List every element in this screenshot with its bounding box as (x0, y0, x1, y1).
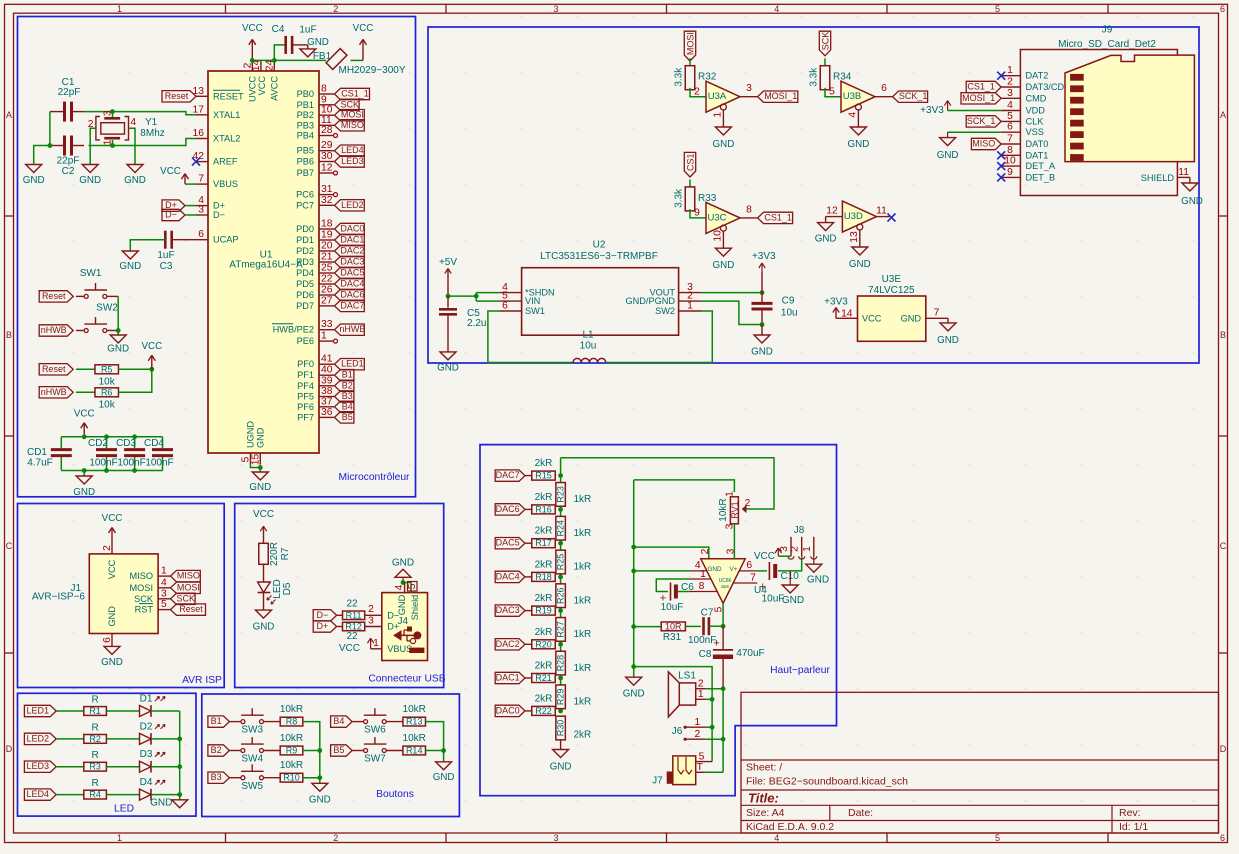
svg-text:5: 5 (161, 599, 167, 610)
svg-text:AVCC: AVCC (269, 76, 279, 101)
svg-text:12: 12 (826, 206, 838, 217)
svg-text:3: 3 (746, 83, 752, 94)
svg-text:GND: GND (713, 260, 735, 271)
svg-text:R8: R8 (286, 717, 298, 727)
svg-text:GND: GND (107, 344, 129, 355)
svg-text:7: 7 (1007, 134, 1013, 145)
svg-text:T: T (697, 762, 704, 773)
svg-text:GND: GND (255, 427, 265, 448)
svg-text:4.7uF: 4.7uF (27, 458, 53, 469)
svg-text:100nF: 100nF (89, 458, 117, 469)
svg-text:R27: R27 (556, 621, 566, 638)
svg-text:VSS: VSS (1026, 127, 1044, 137)
svg-text:R: R (91, 778, 98, 789)
svg-text:DAC4: DAC4 (496, 571, 520, 581)
svg-text:PC7: PC7 (296, 200, 314, 210)
svg-text:GND: GND (124, 175, 146, 186)
svg-text:VCC: VCC (754, 551, 775, 562)
svg-text:MISO: MISO (972, 139, 995, 149)
svg-text:D1: D1 (140, 694, 153, 705)
svg-text:R21: R21 (535, 673, 552, 683)
svg-text:3.3k: 3.3k (809, 67, 820, 87)
svg-text:R15: R15 (535, 471, 552, 481)
svg-text:C2: C2 (62, 166, 75, 177)
svg-text:C9: C9 (782, 296, 795, 307)
svg-text:Reset: Reset (42, 364, 66, 374)
svg-text:10k: 10k (99, 399, 116, 410)
svg-text:PF6: PF6 (297, 402, 314, 412)
svg-text:GND: GND (23, 175, 45, 186)
svg-text:4: 4 (161, 577, 167, 588)
svg-text:SCK: SCK (821, 32, 831, 51)
svg-text:10uF: 10uF (661, 602, 684, 613)
svg-text:1: 1 (725, 491, 736, 497)
svg-text:1: 1 (373, 638, 379, 649)
svg-text:DAC4: DAC4 (340, 279, 364, 289)
svg-text:VCC: VCC (160, 166, 181, 177)
svg-text:GND: GND (849, 259, 871, 270)
svg-text:1: 1 (695, 717, 701, 728)
svg-text:Haut−parleur: Haut−parleur (770, 665, 830, 676)
svg-text:2kR: 2kR (574, 730, 592, 741)
svg-text:XTAL2: XTAL2 (213, 134, 240, 144)
svg-text:PB7: PB7 (297, 168, 314, 178)
svg-text:A: A (1220, 110, 1226, 120)
svg-text:GND: GND (901, 314, 922, 324)
svg-text:Id: 1/1: Id: 1/1 (1119, 821, 1148, 833)
svg-text:6: 6 (502, 301, 508, 312)
svg-text:GND: GND (437, 363, 459, 374)
svg-text:CS1_1: CS1_1 (764, 212, 792, 222)
svg-text:1: 1 (103, 139, 114, 145)
svg-text:18: 18 (321, 219, 333, 230)
svg-text:6: 6 (102, 637, 113, 643)
svg-text:nHWB: nHWB (339, 324, 365, 334)
svg-text:33: 33 (321, 319, 333, 330)
svg-text:8: 8 (1007, 145, 1013, 156)
svg-text:DAC5: DAC5 (496, 538, 520, 548)
svg-text:R11: R11 (346, 610, 362, 620)
svg-text:20: 20 (321, 241, 333, 252)
svg-text:DAC6: DAC6 (340, 290, 364, 300)
svg-text:Reset: Reset (165, 91, 189, 101)
svg-text:LED: LED (114, 804, 134, 815)
svg-text:GND: GND (150, 798, 172, 809)
svg-text:2kR: 2kR (535, 492, 553, 503)
svg-text:U3C: U3C (707, 212, 726, 223)
svg-text:CMD: CMD (1026, 93, 1047, 103)
svg-text:R29: R29 (556, 689, 566, 706)
svg-text:B2: B2 (211, 745, 222, 755)
svg-text:DAC1: DAC1 (496, 673, 520, 683)
svg-text:R4: R4 (89, 790, 101, 800)
svg-text:CLK: CLK (1026, 116, 1045, 126)
svg-text:1kR: 1kR (574, 629, 592, 640)
svg-text:GND: GND (623, 689, 645, 700)
svg-text:CD1: CD1 (27, 447, 47, 458)
svg-text:GND: GND (101, 657, 123, 668)
svg-text:PB1: PB1 (297, 100, 314, 110)
svg-text:4: 4 (774, 4, 779, 14)
svg-text:PD3: PD3 (296, 257, 314, 267)
svg-text:GND: GND (307, 37, 329, 48)
svg-text:R13: R13 (406, 717, 423, 727)
svg-text:PB4: PB4 (297, 131, 314, 141)
svg-text:Boutons: Boutons (376, 789, 414, 800)
svg-text:2kR: 2kR (535, 661, 553, 672)
svg-text:PB6: PB6 (297, 157, 314, 167)
svg-text:1: 1 (687, 301, 693, 312)
svg-text:R2: R2 (89, 734, 101, 744)
svg-text:1: 1 (1007, 65, 1013, 76)
svg-text:DET_B: DET_B (1026, 172, 1056, 182)
svg-text:1kR: 1kR (574, 494, 592, 505)
svg-text:GND: GND (807, 575, 829, 586)
svg-text:J8: J8 (794, 525, 805, 536)
svg-text:3: 3 (161, 588, 167, 599)
svg-text:J6: J6 (672, 726, 683, 737)
svg-text:100nF: 100nF (117, 458, 145, 469)
svg-text:GND: GND (1181, 196, 1203, 207)
svg-text:U3E: U3E (882, 274, 902, 285)
svg-text:MISO: MISO (177, 571, 200, 581)
svg-text:R30: R30 (556, 720, 566, 737)
svg-text:1: 1 (700, 569, 706, 580)
svg-text:2: 2 (698, 679, 704, 690)
svg-text:5: 5 (829, 87, 835, 98)
svg-text:GND: GND (392, 557, 414, 568)
svg-text:1: 1 (117, 833, 122, 843)
svg-text:PF5: PF5 (297, 392, 314, 402)
svg-text:15: 15 (250, 454, 261, 466)
svg-text:AVR ISP: AVR ISP (182, 675, 222, 686)
svg-text:220R: 220R (269, 542, 280, 566)
svg-text:2: 2 (694, 87, 700, 98)
svg-text:GND: GND (309, 795, 331, 806)
svg-text:nHWB: nHWB (41, 325, 67, 335)
svg-text:LTC3531ES6−3−TRMPBF: LTC3531ES6−3−TRMPBF (540, 251, 658, 262)
svg-text:B: B (6, 330, 12, 340)
svg-text:22: 22 (346, 631, 358, 642)
svg-text:8: 8 (699, 581, 705, 592)
svg-text:2: 2 (368, 604, 374, 615)
svg-text:B1: B1 (342, 370, 353, 380)
svg-text:10kR: 10kR (280, 760, 303, 771)
svg-text:LED1: LED1 (27, 706, 50, 716)
svg-text:R14: R14 (406, 746, 423, 756)
svg-text:R24: R24 (556, 520, 566, 537)
svg-text:VIN: VIN (525, 296, 540, 306)
svg-text:SCK: SCK (177, 593, 196, 603)
svg-text:GND: GND (708, 566, 722, 573)
svg-text:40: 40 (321, 365, 333, 376)
svg-text:+3V3: +3V3 (824, 297, 848, 308)
svg-text:5: 5 (995, 4, 1000, 14)
svg-text:D+: D+ (317, 621, 329, 631)
svg-text:8Mhz: 8Mhz (140, 128, 164, 139)
svg-text:2kR: 2kR (535, 693, 553, 704)
svg-text:SW4: SW4 (241, 754, 263, 765)
svg-text:10: 10 (1004, 156, 1016, 167)
svg-text:+: + (713, 638, 719, 650)
svg-text:Y1: Y1 (145, 117, 158, 128)
svg-text:GND: GND (937, 335, 959, 346)
svg-text:11: 11 (876, 206, 887, 217)
svg-text:MOSI: MOSI (130, 583, 153, 593)
svg-text:B2: B2 (342, 380, 353, 390)
svg-text:PD5: PD5 (296, 279, 314, 289)
svg-text:Date:: Date: (848, 807, 873, 819)
svg-text:12: 12 (321, 163, 333, 174)
svg-text:VCC: VCC (107, 559, 117, 579)
svg-text:MISO: MISO (130, 571, 153, 581)
svg-text:2kR: 2kR (535, 559, 553, 570)
svg-text:DET_A: DET_A (1026, 161, 1056, 171)
svg-text:1kR: 1kR (574, 697, 592, 708)
svg-text:FB1: FB1 (313, 51, 332, 62)
svg-text:1kR: 1kR (574, 562, 592, 573)
svg-text:LED1: LED1 (341, 359, 364, 369)
svg-text:PB5: PB5 (297, 146, 314, 156)
svg-text:10: 10 (713, 230, 724, 242)
svg-text:PB0: PB0 (297, 89, 314, 99)
svg-text:SW1: SW1 (525, 306, 545, 316)
svg-text:DAC7: DAC7 (496, 470, 520, 480)
svg-text:U3B: U3B (843, 91, 861, 102)
svg-text:PB2: PB2 (297, 110, 314, 120)
svg-text:D: D (1220, 744, 1227, 754)
svg-text:1: 1 (698, 689, 704, 700)
svg-text:39: 39 (321, 375, 333, 386)
svg-text:LED2: LED2 (341, 200, 364, 210)
svg-text:4: 4 (848, 112, 859, 118)
svg-text:UCAP: UCAP (213, 235, 239, 245)
svg-text:Microcontrôleur: Microcontrôleur (339, 472, 411, 483)
svg-text:GND: GND (433, 772, 455, 783)
svg-text:6: 6 (746, 560, 752, 571)
svg-text:RESET: RESET (213, 91, 244, 101)
svg-text:9: 9 (321, 94, 327, 105)
svg-text:SW7: SW7 (364, 754, 386, 765)
svg-text:DAC2: DAC2 (340, 246, 364, 256)
svg-text:R22: R22 (535, 706, 552, 716)
svg-text:22: 22 (346, 598, 358, 609)
svg-text:1uF: 1uF (299, 25, 316, 36)
svg-text:DAT0: DAT0 (1026, 139, 1049, 149)
svg-text:LS1: LS1 (678, 671, 696, 682)
svg-text:C4: C4 (272, 24, 285, 35)
svg-text:V+: V+ (730, 566, 738, 573)
svg-text:2: 2 (700, 548, 711, 554)
svg-text:SW3: SW3 (241, 725, 263, 736)
svg-text:1: 1 (802, 546, 813, 552)
svg-text:C7: C7 (701, 608, 714, 619)
svg-text:29: 29 (321, 140, 333, 151)
svg-text:SW2: SW2 (96, 303, 118, 314)
svg-text:4: 4 (774, 833, 779, 843)
svg-text:10k: 10k (99, 376, 116, 387)
svg-text:1: 1 (161, 566, 167, 577)
svg-text:PD0: PD0 (296, 224, 314, 234)
svg-text:CS1: CS1 (686, 153, 696, 171)
svg-text:CD2: CD2 (88, 438, 108, 449)
svg-text:6: 6 (881, 83, 887, 94)
svg-text:GND/PGND: GND/PGND (625, 296, 675, 306)
svg-text:26: 26 (321, 285, 333, 296)
svg-text:10kR: 10kR (403, 704, 426, 715)
svg-text:2kR: 2kR (535, 627, 553, 638)
svg-text:74LVC125: 74LVC125 (868, 285, 915, 296)
svg-text:3: 3 (1007, 88, 1013, 99)
svg-text:VCC: VCC (253, 509, 274, 520)
svg-text:Shield: Shield (410, 595, 420, 621)
svg-text:GND: GND (79, 175, 101, 186)
svg-text:Size: A4: Size: A4 (746, 807, 785, 819)
svg-text:GND: GND (782, 595, 804, 606)
svg-text:DAC7: DAC7 (340, 300, 364, 310)
svg-text:DAC3: DAC3 (496, 605, 520, 615)
svg-text:J9: J9 (1102, 25, 1113, 36)
svg-text:R: R (91, 695, 98, 706)
svg-text:7: 7 (198, 174, 204, 185)
svg-text:22pF: 22pF (57, 156, 80, 167)
svg-text:10u: 10u (580, 340, 597, 351)
svg-text:KiCad E.D.A. 9.0.2: KiCad E.D.A. 9.0.2 (746, 821, 834, 833)
svg-text:SCK: SCK (341, 99, 360, 109)
svg-text:SCK: SCK (134, 594, 154, 604)
svg-text:VCC: VCC (141, 341, 162, 352)
svg-text:19: 19 (321, 230, 333, 241)
svg-text:2.2u: 2.2u (467, 318, 486, 329)
svg-text:R9: R9 (286, 746, 298, 756)
svg-text:9: 9 (694, 208, 700, 219)
svg-text:22: 22 (321, 274, 333, 285)
svg-text:DAC6: DAC6 (496, 504, 520, 514)
svg-text:UVCC: UVCC (247, 76, 257, 102)
svg-text:GND: GND (713, 139, 735, 150)
svg-text:D3: D3 (140, 749, 153, 760)
svg-text:C8: C8 (699, 649, 712, 660)
svg-text:5: 5 (407, 583, 418, 589)
svg-text:PF4: PF4 (297, 381, 314, 391)
svg-text:RST: RST (135, 605, 154, 615)
svg-text:3: 3 (553, 4, 558, 14)
svg-text:C: C (6, 541, 13, 551)
svg-text:2: 2 (695, 729, 701, 740)
svg-text:GND: GND (848, 139, 870, 150)
svg-text:1: 1 (321, 331, 327, 342)
svg-text:R1: R1 (89, 706, 101, 716)
svg-text:4: 4 (1007, 100, 1013, 111)
svg-text:DAC3: DAC3 (340, 257, 364, 267)
svg-text:3.3k: 3.3k (674, 188, 685, 208)
svg-text:1: 1 (713, 112, 724, 118)
svg-text:7: 7 (750, 573, 756, 584)
svg-text:SCK_1: SCK_1 (899, 91, 928, 101)
svg-text:SW5: SW5 (241, 781, 263, 792)
svg-text:D4: D4 (140, 777, 153, 788)
svg-text:GND: GND (751, 346, 773, 357)
svg-text:8: 8 (746, 204, 752, 215)
svg-text:2: 2 (102, 545, 113, 551)
svg-text:RV1: RV1 (730, 501, 740, 518)
svg-text:8: 8 (321, 84, 327, 95)
svg-text:LED4: LED4 (27, 789, 50, 799)
svg-text:B4: B4 (342, 401, 353, 411)
svg-text:R: R (91, 722, 98, 733)
svg-text:File: BEG2−soundboard.kicad_sc: File: BEG2−soundboard.kicad_sch (746, 776, 908, 788)
svg-text:41: 41 (321, 354, 333, 365)
svg-text:C: C (1220, 541, 1227, 551)
svg-text:37: 37 (321, 396, 333, 407)
svg-text:LED3: LED3 (341, 156, 364, 166)
svg-text:R28: R28 (556, 655, 566, 672)
svg-text:21: 21 (321, 252, 333, 263)
svg-text:D5: D5 (282, 582, 293, 595)
svg-text:MOSI: MOSI (686, 32, 696, 55)
svg-text:3: 3 (103, 110, 114, 116)
svg-text:PD1: PD1 (296, 235, 314, 245)
svg-text:R3: R3 (89, 762, 101, 772)
svg-text:D−: D− (317, 610, 329, 620)
svg-text:MH2029−300Y: MH2029−300Y (339, 65, 406, 76)
svg-text:4: 4 (394, 584, 405, 590)
svg-text:VCC: VCC (353, 23, 374, 34)
svg-text:1: 1 (117, 4, 122, 14)
svg-text:2kR: 2kR (535, 526, 553, 537)
svg-text:VBUS: VBUS (213, 179, 238, 189)
svg-text:DAC0: DAC0 (496, 705, 520, 715)
svg-text:B4: B4 (333, 716, 344, 726)
svg-text:+3V3: +3V3 (920, 105, 944, 116)
svg-text:PD2: PD2 (296, 246, 314, 256)
svg-text:B3: B3 (211, 772, 222, 782)
svg-text:5: 5 (699, 752, 705, 763)
svg-text:R6: R6 (101, 387, 113, 397)
svg-text:D−: D− (165, 210, 177, 220)
svg-text:LED3: LED3 (27, 761, 50, 771)
svg-text:DAC0: DAC0 (340, 224, 364, 234)
svg-text:Connecteur USB: Connecteur USB (368, 674, 445, 685)
svg-text:LED2: LED2 (27, 733, 50, 743)
svg-text:28: 28 (321, 125, 333, 136)
svg-text:SHIELD: SHIELD (1141, 173, 1175, 183)
svg-text:VCC: VCC (74, 408, 95, 419)
svg-text:32: 32 (321, 195, 333, 206)
svg-text:3: 3 (198, 205, 204, 216)
svg-text:GND: GND (253, 622, 275, 633)
svg-text:D: D (6, 744, 13, 754)
svg-text:R17: R17 (535, 538, 552, 548)
svg-text:R23: R23 (556, 486, 566, 503)
svg-text:6: 6 (198, 229, 204, 240)
svg-text:16: 16 (193, 128, 205, 139)
svg-text:PE6: PE6 (297, 336, 314, 346)
svg-text:6: 6 (1220, 4, 1225, 14)
svg-text:2: 2 (790, 546, 801, 552)
svg-text:R7: R7 (280, 547, 291, 560)
svg-text:5: 5 (995, 833, 1000, 843)
svg-text:10R: 10R (665, 621, 682, 631)
svg-text:B3: B3 (342, 391, 353, 401)
svg-text:30: 30 (321, 151, 333, 162)
svg-text:27: 27 (321, 295, 333, 306)
svg-text:B5: B5 (333, 745, 344, 755)
svg-text:10kR: 10kR (280, 704, 303, 715)
svg-text:9: 9 (1007, 167, 1013, 178)
svg-text:U3D: U3D (844, 211, 863, 222)
svg-text:D−: D− (213, 210, 225, 220)
